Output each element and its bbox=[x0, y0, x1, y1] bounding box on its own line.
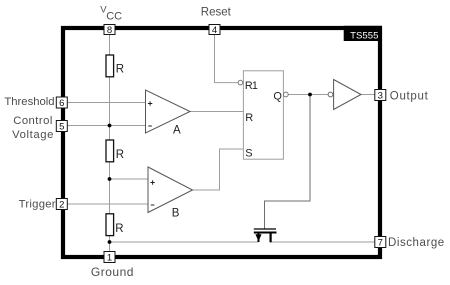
transistor Q1 gate feed plate bbox=[254, 228, 276, 230]
transistor Q1 source leg with body arrow bbox=[255, 234, 261, 243]
flip-flop U1 box bbox=[243, 71, 283, 159]
wire: Vcc pin 8 to resistor chain top bbox=[109, 35, 111, 57]
pin 5 label Control Voltage bbox=[12, 115, 54, 141]
svg-text:Control: Control bbox=[13, 115, 53, 127]
wire: Trigger pin 2 to comparator B minus input bbox=[67, 203, 148, 205]
output buffer U2 bbox=[334, 80, 361, 110]
pin 1 label Ground bbox=[91, 265, 134, 279]
wire: Reset pin 4 down and right to R1 bubble bbox=[215, 35, 239, 83]
op-amp comparator A bbox=[146, 90, 191, 137]
flip-flop pin label S bbox=[245, 148, 252, 160]
pin 4 Reset bbox=[209, 25, 220, 37]
pin 2 label Trigger bbox=[19, 198, 56, 210]
wire: Q node down to discharge transistor gate bbox=[265, 95, 311, 229]
svg-text:3: 3 bbox=[378, 91, 383, 102]
svg-text:R: R bbox=[116, 149, 124, 161]
svg-text:Threshold: Threshold bbox=[4, 96, 54, 108]
pin 3 label Output bbox=[390, 90, 429, 102]
flip-flop pin label R bbox=[245, 112, 253, 124]
resistor chain wire: R3 bottom to ground pin 1 bbox=[109, 236, 111, 252]
svg-text:R: R bbox=[115, 223, 123, 235]
pin 2 Trigger bbox=[56, 199, 67, 211]
svg-text:Reset: Reset bbox=[201, 7, 232, 19]
node: trigger divider junction bbox=[108, 177, 112, 181]
wire: buffer output to Output pin 3 bbox=[361, 94, 375, 96]
pin 7 Discharge bbox=[375, 237, 386, 249]
svg-text:R: R bbox=[245, 112, 253, 124]
svg-text:TS555: TS555 bbox=[350, 31, 378, 42]
TS555 part label bbox=[344, 26, 382, 42]
resistor R middle bbox=[106, 140, 124, 162]
svg-text:Ground: Ground bbox=[91, 265, 134, 279]
transistor Q1 channel plate bbox=[254, 232, 277, 234]
node: control voltage divider junction bbox=[108, 124, 112, 128]
svg-text:4: 4 bbox=[212, 25, 217, 36]
transistor Q1 drain leg bbox=[270, 234, 272, 243]
svg-text:S: S bbox=[245, 148, 252, 160]
node: Q output junction bbox=[308, 93, 312, 97]
wire: ground node to transistor source bbox=[110, 241, 259, 243]
pin 1 Ground bbox=[104, 252, 115, 264]
svg-text:Output: Output bbox=[390, 90, 429, 102]
pin 7 label Discharge bbox=[388, 237, 445, 249]
flip-flop R1 input bubble bbox=[238, 80, 243, 85]
svg-text:5: 5 bbox=[59, 122, 64, 133]
svg-text:6: 6 bbox=[59, 98, 64, 109]
svg-text:7: 7 bbox=[378, 238, 383, 249]
svg-text:R: R bbox=[116, 63, 124, 75]
wire: Control Voltage pin 5 to comparator A minus input bbox=[67, 125, 145, 127]
resistor chain wire: R1 bottom to R2 top bbox=[109, 77, 111, 141]
svg-text:CC: CC bbox=[106, 11, 122, 23]
pin 4 label Reset bbox=[201, 7, 232, 19]
wire: comparator A output to flip-flop R input bbox=[190, 111, 243, 113]
pin 3 Output bbox=[375, 90, 386, 102]
svg-text:Trigger: Trigger bbox=[19, 198, 56, 210]
svg-text:1: 1 bbox=[107, 253, 112, 264]
pin 8 label Vcc bbox=[100, 4, 122, 22]
resistor R bottom bbox=[106, 214, 124, 236]
resistor R top bbox=[106, 55, 124, 77]
node: ground junction bbox=[108, 240, 112, 244]
flip-flop pin label R1 bbox=[245, 80, 258, 92]
svg-text:R1: R1 bbox=[245, 80, 258, 92]
pin 8 Vcc bbox=[104, 25, 115, 37]
pin 5 Control Voltage bbox=[56, 121, 67, 133]
pin 6 Threshold bbox=[56, 97, 67, 109]
wire: transistor drain to Discharge pin 7 bbox=[271, 241, 375, 243]
svg-text:Discharge: Discharge bbox=[388, 237, 445, 249]
pin 6 label Threshold bbox=[4, 96, 54, 108]
resistor chain wire: R2 bottom to R3 top bbox=[109, 162, 111, 215]
svg-text:Voltage: Voltage bbox=[12, 129, 54, 141]
svg-text:A: A bbox=[173, 125, 181, 137]
output buffer input bubble bbox=[328, 92, 333, 97]
wire: divider node to comparator B plus input bbox=[110, 178, 149, 180]
svg-text:8: 8 bbox=[107, 25, 112, 36]
svg-text:B: B bbox=[172, 207, 180, 219]
wire: Threshold pin 6 to comparator A plus input bbox=[67, 102, 145, 104]
flip-flop Q output bubble bbox=[283, 92, 288, 97]
op-amp comparator B bbox=[148, 167, 193, 219]
wire: flip-flop Q bubble to output buffer bubble bbox=[288, 94, 327, 96]
flip-flop pin label Q bbox=[273, 90, 282, 102]
svg-text:Q: Q bbox=[273, 90, 282, 102]
IC boundary box bbox=[63, 28, 380, 257]
svg-text:2: 2 bbox=[59, 200, 64, 211]
wire: comparator B output to flip-flop S input bbox=[193, 149, 244, 190]
